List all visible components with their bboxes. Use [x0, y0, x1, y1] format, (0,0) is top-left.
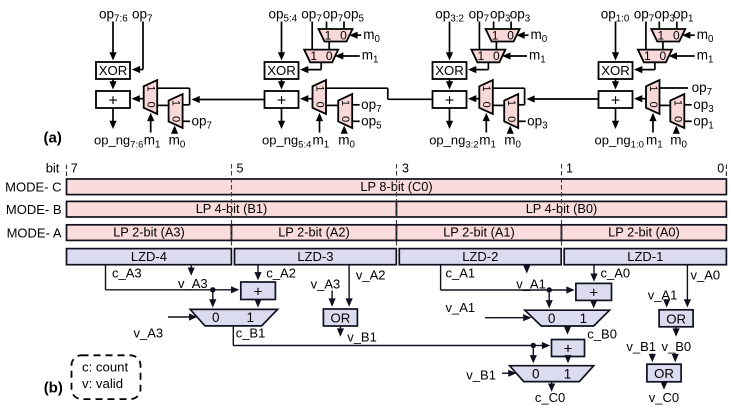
block LZD-2 — [399, 249, 561, 265]
wire m_1 select to M3d — [502, 52, 527, 59]
bar MODE-C LP 8-bit (C0) — [67, 179, 727, 195]
bit index 3 — [397, 162, 410, 247]
wire v_A3 to OR U2 — [329, 291, 336, 307]
wire riser group3 (op_7 net to M3a/M3b) — [493, 88, 525, 105]
node v_B1 — [347, 330, 377, 345]
wire U1 out to mux B1 input 1 — [254, 299, 261, 307]
svg-text:OR: OR — [654, 366, 674, 381]
bar MODE-A LP 2-bit (A0) — [562, 225, 727, 241]
node op_ng_1:0 — [595, 133, 644, 151]
wire c_B1 from mux B1 to adder U5 — [233, 326, 550, 349]
svg-text:0: 0 — [493, 49, 500, 63]
wire from adder P4 left to group3 riser — [526, 95, 598, 102]
svg-text:1: 1 — [564, 366, 572, 381]
svg-text:1: 1 — [339, 100, 351, 106]
svg-text:XOR: XOR — [267, 63, 296, 78]
wire m_1 select to M4d — [669, 52, 695, 59]
XOR gate X2 — [265, 62, 299, 79]
mux M3d (1 0) select m_1 — [471, 49, 505, 63]
svg-text:0: 0 — [507, 28, 514, 42]
wire X2 to adder P2 — [278, 79, 285, 90]
node m_1 — [362, 47, 379, 65]
svg-text:LP 2-bit (A0): LP 2-bit (A0) — [608, 225, 680, 240]
node c_A2 — [266, 266, 296, 281]
svg-text:bit: bit — [46, 161, 60, 176]
adder P4 — [599, 91, 633, 109]
adder U1 — [241, 282, 276, 300]
wire m_1 select to M4a — [649, 113, 656, 133]
wire v_A0 from LZD-1 to OR U4 — [684, 265, 691, 308]
wire U6 out v_C0 — [660, 381, 667, 389]
wire op_7 label to mux M4a input 1 — [660, 87, 689, 89]
wire U2 out v_B1 — [337, 326, 344, 337]
node m_0 (bottom) — [670, 133, 687, 151]
svg-text:0: 0 — [313, 102, 325, 108]
svg-text:0: 0 — [340, 28, 347, 42]
svg-text:v_A1: v_A1 — [516, 276, 546, 291]
svg-text:0: 0 — [144, 102, 156, 108]
node m_1 (bottom) — [479, 133, 496, 151]
wire P1 output — [109, 108, 116, 129]
svg-text:0: 0 — [548, 311, 556, 326]
node v_A1 (to OR U4) — [648, 288, 678, 303]
node op_3 (group 4 input 2) — [654, 7, 675, 25]
wire m_0 select to M3b — [507, 126, 514, 134]
svg-text:0: 0 — [170, 116, 182, 122]
node op_7 (group 2 input 2) — [323, 7, 343, 25]
svg-text:1: 1 — [492, 28, 499, 42]
adder U3 — [576, 283, 612, 301]
wire M2d out to XOR X2 — [300, 62, 321, 73]
svg-text:0: 0 — [505, 116, 517, 122]
svg-text:v_A1: v_A1 — [648, 288, 678, 303]
svg-text:1: 1 — [325, 28, 332, 42]
svg-text:1: 1 — [657, 28, 664, 42]
svg-text:+: + — [611, 92, 620, 109]
label (b) — [44, 380, 63, 397]
wire U5 out to mux C0 input 1 — [564, 355, 571, 363]
svg-text:+: + — [564, 341, 573, 358]
svg-text:0: 0 — [671, 116, 683, 122]
svg-text:0: 0 — [326, 49, 333, 63]
adder P2 — [265, 91, 299, 109]
wire m_1 select to M2a — [316, 113, 323, 133]
node m_1 (bottom) — [313, 133, 330, 151]
svg-text:(b): (b) — [44, 380, 63, 397]
wire X3 to adder P3 — [446, 79, 453, 90]
svg-text:1: 1 — [644, 49, 651, 63]
mux M4d (1 0) select m_1 — [638, 49, 672, 63]
svg-text:1: 1 — [170, 100, 182, 106]
svg-text:LZD-2: LZD-2 — [462, 249, 498, 264]
bar MODE-A LP 2-bit (A3) — [67, 225, 232, 241]
mux M4c (1 0) select m_0 — [651, 28, 685, 42]
node v_A3 (to OR U2) — [311, 277, 341, 292]
node op_7 at M4a input 1 — [692, 80, 712, 98]
bar MODE-A LP 2-bit (A2) — [232, 225, 397, 241]
svg-text:0: 0 — [532, 366, 540, 381]
wire v_B0 to OR U6 — [672, 354, 679, 363]
node op_7 at M1b input 0 — [183, 113, 212, 131]
svg-text:1: 1 — [566, 162, 573, 176]
svg-text:0: 0 — [647, 102, 659, 108]
wire from adder P2 left to group1 riser — [191, 96, 264, 103]
svg-text:0: 0 — [339, 116, 351, 122]
node m_0 (bottom) — [338, 133, 355, 151]
svg-text:MODE- B: MODE- B — [6, 202, 62, 217]
node m_0 (bottom) — [504, 133, 521, 151]
mux M2b (vertical) select m_0 — [338, 94, 352, 128]
wire m_0 select to M4b — [673, 126, 680, 134]
svg-text:LZD-4: LZD-4 — [131, 249, 167, 264]
node op_7 at M2b input 1 — [352, 97, 381, 115]
node m_0 — [697, 27, 714, 45]
label MODE-C — [5, 180, 61, 195]
wire M3c out to M3d — [495, 42, 497, 50]
node v_A1 (select) — [446, 300, 476, 315]
wire v_A3 from LZD-4 — [188, 265, 195, 276]
wire v_B1 to OR U6 — [649, 354, 656, 363]
node m_1 — [697, 47, 714, 65]
mux M4b (vertical) select m_0 — [670, 94, 684, 128]
block LZD-1 — [564, 249, 726, 265]
node c_A1 — [446, 266, 476, 281]
wire c_A3 to mux B1 input 0 — [209, 293, 216, 308]
svg-text:+: + — [589, 284, 598, 301]
node op_7:6 — [99, 7, 128, 25]
wire c_A1 from LZD-2 to adder U3 — [441, 265, 575, 294]
svg-text:0: 0 — [717, 162, 724, 176]
svg-text:1: 1 — [144, 85, 156, 91]
node bit axis label — [46, 161, 60, 176]
bar MODE-B LP 4-bit (B0) — [397, 201, 727, 217]
node op_3 at M3b input 0 — [518, 113, 548, 131]
wire v_B1 select to mux C0 — [502, 370, 517, 377]
svg-text:LP 2-bit (A1): LP 2-bit (A1) — [443, 225, 515, 240]
wire from adder P3 left to mux M2a input 1 — [326, 88, 433, 99]
mux M3b (vertical) select m_0 — [504, 94, 518, 128]
svg-text:1: 1 — [310, 49, 317, 63]
svg-text:MODE- A: MODE- A — [7, 225, 62, 240]
node v_A3 (select) — [134, 326, 164, 341]
wire m_0 select to M3c — [516, 32, 528, 39]
node op_ng_5:4 — [262, 133, 311, 151]
svg-text:c_B0: c_B0 — [587, 327, 617, 342]
svg-text:c_A1: c_A1 — [446, 266, 476, 281]
svg-text:v_B1: v_B1 — [626, 339, 656, 354]
wire c_A3 from LZD-4 to adder U1 — [106, 265, 240, 294]
svg-text:v_A0: v_A0 — [691, 268, 721, 283]
svg-text:c_A3: c_A3 — [112, 266, 142, 281]
svg-text:7: 7 — [71, 162, 78, 176]
node v_A1 — [516, 276, 546, 291]
block LZD-3 — [235, 249, 397, 265]
node c_B0 — [587, 327, 617, 342]
svg-text:+: + — [108, 92, 117, 109]
node op_3 (group 3 input 2) — [490, 7, 511, 25]
wire m_1 select to M1a — [147, 113, 154, 133]
svg-text:v_A3: v_A3 — [178, 276, 208, 291]
wire M4a out to adder P4 — [634, 95, 646, 102]
svg-text:5: 5 — [237, 162, 244, 176]
svg-text:MODE- C: MODE- C — [5, 180, 61, 195]
wire c_A0 from LZD-1 to adder U3 — [590, 265, 597, 282]
wire U3 out to mux B0 input 1 — [590, 300, 597, 308]
node op_5 (group 2 input 3) — [344, 7, 365, 25]
svg-text:c_B1: c_B1 — [236, 326, 266, 341]
wire c_A2 from LZD-3 to adder U1 — [254, 265, 261, 281]
wire v_A2 from LZD-3 to OR U2 — [346, 265, 353, 307]
svg-text:LZD-1: LZD-1 — [627, 249, 663, 264]
wire c_B0 from mux B0 — [564, 326, 571, 335]
or-gate U4 — [659, 310, 693, 327]
svg-text:1: 1 — [671, 100, 683, 106]
wire P4 output — [612, 108, 619, 129]
wire c_A1 to mux B0 input 0 — [546, 293, 553, 309]
node c_A3 — [112, 266, 142, 281]
node op_1 (group 4 input 3) — [673, 7, 693, 25]
wire riser group1 (op_7 net to M1a/M1b) — [157, 88, 189, 105]
svg-text:XOR: XOR — [435, 63, 464, 78]
wire M1b out to M1a input 0 — [157, 104, 168, 106]
junction c_A3 branch — [210, 287, 215, 292]
svg-text:0: 0 — [673, 28, 680, 42]
svg-text:v_A1: v_A1 — [446, 300, 476, 315]
XOR gate X4 — [599, 62, 633, 79]
node v_C0 — [649, 390, 679, 405]
wire M3a out to adder P3 — [468, 95, 479, 102]
wire op_7:6 to XOR X1 — [109, 22, 116, 61]
node op_7 (group 3 input 1) — [469, 7, 489, 25]
node op_ng_3:2 — [429, 133, 478, 151]
svg-text:LP 2-bit (A3): LP 2-bit (A3) — [113, 225, 185, 240]
mux C0 (0 1) select v_B1 — [510, 366, 594, 382]
wire M1a out to adder P1 — [132, 95, 144, 102]
mux M4a (vertical) select m_1 — [646, 80, 660, 114]
wire M4c out to M4d — [662, 42, 664, 50]
wire op labels to mux M3c — [494, 22, 512, 30]
node c_B1 — [236, 326, 266, 341]
mux M3c (1 0) select m_0 — [486, 28, 520, 42]
XOR gate X1 — [96, 62, 130, 79]
svg-text:LP 2-bit (A2): LP 2-bit (A2) — [278, 225, 350, 240]
mux M2c (1 0) select m_0 — [319, 28, 353, 42]
mux M1b (vertical) select m_0 — [169, 94, 183, 128]
adder U5 — [552, 340, 585, 358]
node m_1 — [529, 47, 546, 65]
node v_A2 — [356, 268, 386, 283]
svg-text:OR: OR — [666, 311, 686, 326]
svg-text:v_A3: v_A3 — [311, 277, 341, 292]
mux M2a (vertical) select m_1 — [313, 80, 327, 114]
wire op_7 to mux M2d — [311, 22, 313, 50]
wire m_0 select to M2c — [349, 32, 361, 39]
wire m_0 select to M4c — [682, 32, 695, 39]
wire m_0 select to M2b — [341, 126, 348, 134]
svg-text:+: + — [277, 92, 286, 109]
svg-text:v_A2: v_A2 — [356, 268, 386, 283]
svg-text:v_B0: v_B0 — [662, 339, 692, 354]
svg-text:+: + — [445, 92, 454, 109]
bit index 1 — [562, 162, 574, 247]
svg-text:1: 1 — [647, 85, 659, 91]
node c_A0 — [601, 266, 631, 281]
block LZD-4 — [67, 249, 232, 265]
svg-text:0: 0 — [480, 102, 492, 108]
legend c:count v:valid — [72, 355, 141, 399]
svg-text:c: count: c: count — [82, 360, 129, 375]
node op_1:0 — [601, 7, 630, 25]
bit index 5 — [232, 162, 244, 247]
wire op_7 down-left into XOR X1 — [132, 22, 143, 74]
adder P3 — [433, 91, 467, 109]
adder P1 — [96, 91, 130, 109]
node op_7 (group 2 input 1) — [301, 7, 321, 25]
node op_3 at M4b input 1 — [684, 97, 714, 115]
wire op_1:0 to XOR X4 — [612, 22, 619, 61]
node op_3 (group 3 input 3) — [510, 7, 531, 25]
wire M2a out to adder P2 — [300, 95, 313, 102]
svg-text:XOR: XOR — [99, 63, 128, 78]
svg-text:0: 0 — [212, 310, 220, 325]
node m_0 — [363, 27, 380, 45]
node op_ng_7:6 — [94, 133, 143, 151]
mux M2d (1 0) select m_1 — [304, 49, 338, 63]
svg-text:v_C0: v_C0 — [649, 390, 679, 405]
wire m_1 select to M2d — [335, 52, 360, 59]
svg-text:OR: OR — [331, 311, 351, 326]
node c_C0 — [535, 390, 565, 405]
wire P2 output — [278, 108, 285, 129]
wire op_7 to mux M3d — [478, 22, 480, 50]
svg-text:1: 1 — [247, 310, 255, 325]
wire M2c out to M2d — [328, 42, 330, 50]
svg-text:1: 1 — [505, 100, 517, 106]
wire v_A1 to OR U4 — [663, 299, 670, 307]
node op_7 (group 4 input 1) — [634, 7, 654, 25]
mux B0 (0 1) select v_A1 — [525, 310, 610, 326]
svg-text:1: 1 — [478, 49, 485, 63]
wire M3d out to XOR X3 — [468, 62, 488, 73]
svg-text:v_B1: v_B1 — [466, 368, 496, 383]
node op_5 at M2b input 0 — [352, 113, 382, 131]
bar MODE-B LP 4-bit (B1) — [67, 201, 397, 217]
node v_B1 (to OR U6) — [626, 339, 656, 354]
or-gate U2 — [323, 309, 357, 326]
svg-text:1: 1 — [480, 85, 492, 91]
label MODE-B — [6, 202, 62, 217]
node op_3:2 — [435, 7, 464, 25]
svg-text:LZD-3: LZD-3 — [297, 249, 333, 264]
wire m_0 select to M1b — [171, 126, 178, 134]
mux M3a (vertical) select m_1 — [479, 80, 493, 114]
XOR gate X3 — [433, 62, 467, 79]
wire c_C0 from mux C0 — [548, 382, 555, 392]
svg-text:c_A0: c_A0 — [601, 266, 631, 281]
wire op_5:4 to XOR X2 — [278, 22, 285, 61]
node m_0 (bottom) — [169, 133, 186, 151]
wire op_3:2 to XOR X3 — [446, 22, 453, 61]
svg-text:1: 1 — [313, 85, 325, 91]
node v_A0 — [691, 268, 721, 283]
svg-text:v_B1: v_B1 — [347, 330, 377, 345]
bar MODE-A LP 2-bit (A1) — [397, 225, 562, 241]
node v_B0 — [662, 339, 692, 354]
svg-text:0: 0 — [660, 49, 667, 63]
svg-text:3: 3 — [402, 162, 409, 176]
svg-text:(a): (a) — [44, 130, 62, 147]
wire U4 out v_B0 — [673, 327, 680, 337]
wire op_7 to mux M4d — [645, 22, 647, 50]
node m_1 (bottom) — [144, 133, 161, 151]
wire v_A1 select to mux B0 — [485, 314, 532, 321]
wire P3 output — [446, 108, 453, 129]
node v_B1 (select) — [466, 368, 496, 383]
wire op labels to mux M4c — [659, 22, 677, 30]
wire m_1 select to M3a — [483, 113, 490, 133]
wire op labels to mux M2c — [327, 22, 345, 30]
junction c_B1 branch — [531, 343, 536, 348]
wire X1 to adder P1 — [109, 79, 116, 90]
bit index 7 — [67, 162, 78, 177]
junction c_A1 branch — [547, 287, 552, 292]
node op_5:4 — [269, 7, 298, 25]
svg-text:1: 1 — [580, 311, 588, 326]
node m_1 (bottom) — [646, 133, 663, 151]
node op_1 at M4b input 0 — [684, 113, 713, 131]
node v_A3 — [178, 276, 208, 291]
svg-text:c_C0: c_C0 — [535, 390, 565, 405]
wire M4d out to XOR X4 — [634, 62, 655, 73]
node m_0 — [531, 27, 548, 45]
mux M1a (vertical) select m_1 — [144, 80, 158, 114]
svg-text:+: + — [254, 283, 263, 300]
wire v_A3 select to mux B1 — [168, 313, 197, 320]
svg-text:c_A2: c_A2 — [266, 266, 296, 281]
bit index 0 — [717, 162, 726, 177]
wire c_B1 to mux C0 input 0 — [530, 348, 537, 363]
wire X4 to adder P4 — [612, 79, 619, 90]
node op_7 (group 1 input 1) — [132, 7, 152, 25]
svg-text:v: valid: v: valid — [82, 376, 123, 391]
svg-text:v_A3: v_A3 — [134, 326, 164, 341]
svg-text:XOR: XOR — [601, 63, 630, 78]
label (a) — [44, 130, 62, 147]
wire M2b out to M2a input 0 — [326, 104, 338, 106]
label MODE-A — [7, 225, 62, 240]
wire v_A1 from LZD-2 — [523, 265, 530, 274]
mux B1 (0 1) select v_A3 — [190, 309, 277, 326]
wire M3b out to M3a input 0 — [493, 104, 504, 106]
wire M4b out to M4a input 0 — [660, 104, 671, 106]
or-gate U6 — [647, 364, 681, 382]
